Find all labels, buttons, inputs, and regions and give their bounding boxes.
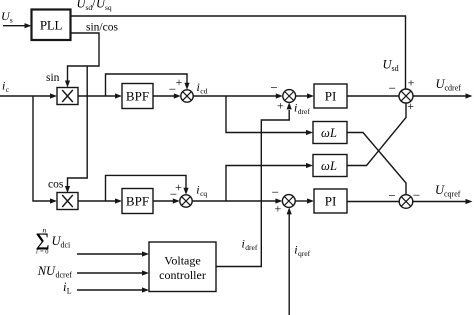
wire: i_cq to summer S5 [192,198,282,203]
svg-text:ω: ω [321,159,330,173]
svg-text:BPF: BPF [126,194,149,209]
svg-text:sd: sd [392,64,399,73]
svg-text:cq: cq [200,189,207,198]
wire: PI d to output summer S3 [347,95,399,97]
wire: i_cd to summer S2 [193,93,283,98]
wire: wL1 cross-coupling diagonal down to S6 [347,133,406,195]
node U_cdref label [436,77,462,93]
summer S6 (U_cqref output) [399,195,413,209]
wire: BPF q to summer S4 [153,198,180,203]
node i_L input label [63,280,72,296]
svg-text:−: − [389,81,396,96]
svg-text:L: L [329,126,337,140]
svg-text:s: s [10,16,13,25]
wire: i_c input line [0,93,57,98]
node i_dref label 2 [242,236,258,252]
wire: U_cdref output arrow [413,93,473,98]
summer S4 (i_cq) [180,195,192,207]
svg-text:−: − [270,80,277,95]
svg-text:Voltage: Voltage [164,254,200,268]
PI controller A2 (q-axis) [314,189,347,213]
svg-text:qref: qref [298,249,311,258]
node i_qref label [294,243,310,259]
summer S5 (q PI input) [282,195,295,208]
svg-text:dcref: dcref [56,271,73,280]
wire: i_qref from bottom to S5 [287,207,292,315]
wire: NU_dcref input arrow [77,270,149,275]
BPF F1 (d-axis) [122,84,153,109]
node U_sd label [383,58,399,74]
summer S2 (d PI input) [283,90,296,103]
wire: q bypass to summer S4 [106,175,189,201]
wire: branch down to cos multiplier [65,66,87,193]
wire: S5 to PI (q) [295,198,314,203]
summer S1 (i_cd) [181,90,193,102]
svg-text:sin/cos: sin/cos [86,22,118,34]
multiplier M1 (sin) [57,88,78,105]
PI controller A1 (d-axis) [314,84,347,108]
BPF F2 (q-axis) [122,189,153,214]
wire: i_cd branch to wL1 [226,96,313,135]
wire: i_cq branch to wL2 [226,163,313,201]
wire: S2 to PI (d) [296,93,314,98]
svg-text:+: + [277,99,284,113]
wire: i_c branch down to cos multiplier [33,96,57,204]
svg-text:dref: dref [298,107,311,116]
svg-text:+: + [176,75,183,89]
wire: i_L input arrow [77,287,149,292]
svg-text:L: L [329,159,337,173]
svg-text:−: − [388,188,395,203]
svg-text:dref: dref [245,243,258,252]
svg-text:+: + [408,76,415,90]
wire: d bypass to summer S1 [106,74,190,96]
svg-text:−: − [413,188,420,203]
svg-text:i: i [36,249,38,256]
svg-text:L: L [67,287,72,296]
svg-text:sin: sin [46,72,60,84]
node i_dref label [294,101,310,117]
svg-text:+: + [275,202,282,216]
summer S3 (U_cdref output) [399,89,413,103]
wL inductance block L1 [313,122,347,144]
wire: sin/cos output of PLL down to sin multiplier [65,33,99,88]
node i_cq label [196,183,207,199]
svg-text:−: − [272,185,279,200]
svg-text:sq: sq [105,3,112,12]
svg-text:cdref: cdref [445,84,462,93]
node i_c label [2,79,10,95]
svg-text:PLL: PLL [40,18,63,33]
node U_sd/U_sq label [77,0,112,12]
wire: cos multiplier to BPF q [78,198,122,203]
Voltage controller U2 [149,242,216,292]
wire: sum U_dci input arrow [77,251,149,256]
wire: U_cqref output arrow [413,199,473,204]
svg-text:BPF: BPF [126,89,149,104]
wire: i_dref from voltage controller to S2 [216,102,292,266]
svg-text:NU: NU [37,264,56,278]
svg-text:ω: ω [321,126,330,140]
svg-text:PI: PI [325,89,337,104]
node U_s label [1,9,13,25]
svg-text:cqref: cqref [444,190,461,199]
wL inductance block L2 [313,155,347,177]
svg-text:cd: cd [200,87,207,96]
svg-text:n: n [43,226,47,235]
svg-text:+: + [407,99,414,113]
node sum U_dci input label [36,226,72,256]
multiplier M2 (cos) [57,193,78,210]
wire: BPF to summer S1 [153,93,181,98]
node U_cqref label [435,183,461,199]
wire: top rail Usd/Usq from PLL to output summer [71,16,406,89]
svg-text:−: − [169,82,176,97]
wire: PI q to output summer S6 [347,201,399,203]
node i_cd label [197,80,208,96]
svg-text:c: c [6,85,10,94]
svg-text:controller: controller [159,268,206,282]
svg-text:dci: dci [61,241,72,250]
svg-text:= 0: = 0 [40,249,49,256]
wire: U_s input to PLL [3,23,32,28]
svg-text:PI: PI [325,194,337,209]
node NU_dcref input label [37,264,73,280]
wire: sin multiplier to BPF [78,93,122,98]
wire: wL2 cross-coupling diagonal up to S3 [347,103,406,166]
svg-text:−: − [170,187,177,202]
PLL U1 [32,10,71,41]
svg-text:cos: cos [48,179,64,191]
